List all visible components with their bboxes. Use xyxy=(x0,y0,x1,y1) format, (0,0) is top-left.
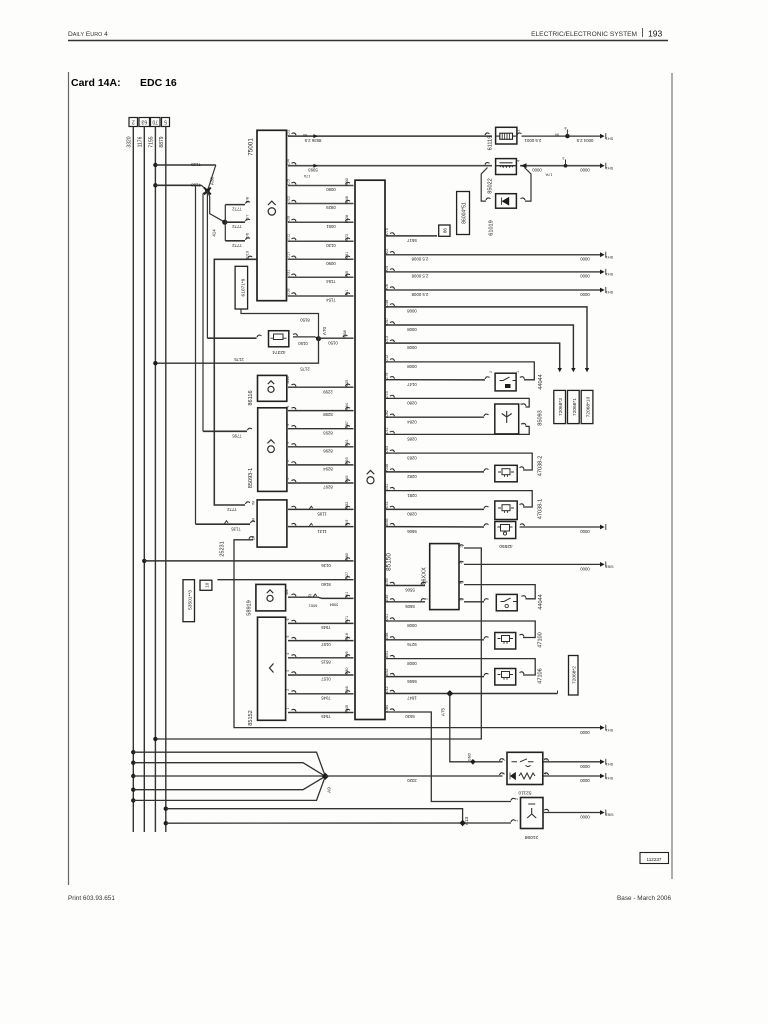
solenoid valve 47100 xyxy=(495,633,516,650)
svg-text:61119: 61119 xyxy=(488,136,494,151)
reference box 72068*1 xyxy=(568,390,580,423)
wire 1847 from ECU pin A/42 through node A75 xyxy=(390,690,395,692)
svg-text:414: 414 xyxy=(212,229,217,237)
wire 0150 from 42374 to node A70 xyxy=(293,334,298,336)
node A36 xyxy=(204,188,211,195)
wire 0281 from ECU pin K/51 to sensor 47038-1 right pin xyxy=(390,487,395,489)
wire 0051 from 75001 pin C/9 to ECU pin K/28 xyxy=(288,221,354,223)
wire 0008 from ECU pin A/41 to valve 47100 right pin xyxy=(390,618,395,620)
wire 0000 from motor 86012 to arrow S/B1 xyxy=(544,812,600,814)
svg-text:47100: 47100 xyxy=(538,632,544,648)
svg-text:A9: A9 xyxy=(327,787,332,793)
wire branch 3 to connector 42374 xyxy=(207,337,256,339)
svg-text:K/6: K/6 xyxy=(385,284,389,290)
wire 8160 from fuse 10 to ECU pin K/27 xyxy=(217,579,353,581)
svg-text:A13: A13 xyxy=(464,816,469,825)
svg-text:5: 5 xyxy=(286,424,290,426)
svg-text:Base - March 2006: Base - March 2006 xyxy=(617,895,671,902)
svg-text:C/19: C/19 xyxy=(246,251,250,259)
svg-text:7133: 7133 xyxy=(191,162,201,167)
node A14 xyxy=(222,220,227,225)
harness arrow SH1 row K/4 xyxy=(600,270,605,275)
svg-text:7772: 7772 xyxy=(227,507,237,512)
wire 5505 from ECU pin A/35 to module 86XXX pin 2 xyxy=(390,599,395,601)
svg-text:A75: A75 xyxy=(441,707,446,716)
svg-text:B/8: B/8 xyxy=(285,589,289,594)
svg-text:70: 70 xyxy=(152,118,158,124)
reference box 53501**3 xyxy=(183,580,195,622)
harness arrow SH1 row 52110 pin 4 xyxy=(600,774,605,779)
svg-text:K/87: K/87 xyxy=(345,421,349,429)
wire from 75001 pin C/2 to fuse 61119 xyxy=(292,133,297,135)
node on bus 7155 upper xyxy=(153,163,157,167)
svg-text:C/11: C/11 xyxy=(287,234,291,242)
svg-text:3: 3 xyxy=(563,156,565,160)
wire 7772 middle to 75001 pin C/7 xyxy=(225,221,245,223)
bus terminal box 63 xyxy=(139,118,150,127)
svg-text:72068*2: 72068*2 xyxy=(572,666,578,684)
svg-text:A/41: A/41 xyxy=(385,614,389,622)
wire 5565 from ECU pin A/52 to valve 47106 left pin xyxy=(390,673,395,675)
svg-text:SH1: SH1 xyxy=(606,762,613,766)
svg-text:EDC 16: EDC 16 xyxy=(140,77,177,89)
svg-text:K/51: K/51 xyxy=(385,483,389,491)
node on bus 7155 lower xyxy=(153,183,157,187)
page header rule xyxy=(68,40,668,42)
svg-text:7772: 7772 xyxy=(232,224,242,229)
svg-text:85093: 85093 xyxy=(538,410,544,426)
svg-text:2.5 0008: 2.5 0008 xyxy=(411,292,428,297)
wire 7772 from 75001 pin C/19 to connector 25231 pin 7M xyxy=(214,259,256,505)
sensor 42550 xyxy=(495,522,516,539)
svg-text:ELECTRIC/ELECTRONIC SYSTEM: ELECTRIC/ELECTRONIC SYSTEM xyxy=(531,31,637,38)
svg-text:72068*3: 72068*3 xyxy=(558,398,564,416)
svg-text:2: 2 xyxy=(286,689,290,691)
svg-text:K/91: K/91 xyxy=(345,252,349,260)
svg-text:10: 10 xyxy=(205,582,210,588)
svg-text:SH1: SH1 xyxy=(606,255,613,259)
reference box 10 xyxy=(200,580,212,590)
wire from module 86XXX pin 3 to switch 44044 lower left pin xyxy=(459,599,464,601)
svg-text:C/4: C/4 xyxy=(287,159,291,165)
svg-text:0280: 0280 xyxy=(407,401,417,406)
wire from bus 8879 to node A13 upper xyxy=(164,807,168,811)
solenoid valve 47106 xyxy=(495,669,516,686)
wire 0283 from ECU pin K/63 to sensor 47038-2 right pin xyxy=(390,450,395,452)
wire 7045 from 85152 pin 2 to ECU pin K/46 xyxy=(292,691,297,693)
wire 7772 bracket at A14 xyxy=(224,205,226,241)
svg-text:K/11: K/11 xyxy=(385,427,389,435)
svg-text:K/45: K/45 xyxy=(345,705,349,713)
svg-text:K/13: K/13 xyxy=(385,336,389,344)
svg-text:A/56: A/56 xyxy=(385,518,389,526)
wire 2175 from node A70 to bus 7155 xyxy=(155,339,318,364)
bus wire 8879 xyxy=(165,127,167,833)
svg-text:0000: 0000 xyxy=(580,292,590,297)
svg-text:2299: 2299 xyxy=(323,389,333,394)
svg-text:4: 4 xyxy=(286,653,290,655)
svg-text:0150: 0150 xyxy=(298,341,308,346)
svg-text:SH1: SH1 xyxy=(606,776,613,780)
svg-text:2175: 2175 xyxy=(300,366,310,371)
svg-text:47038-2: 47038-2 xyxy=(538,456,544,477)
wire 5984 from 58919 to ECU pin K/2 xyxy=(292,594,297,596)
svg-text:85093-1: 85093-1 xyxy=(248,468,254,489)
relay coil 85022 xyxy=(485,163,490,165)
svg-text:8: 8 xyxy=(565,126,567,130)
svg-text:0090: 0090 xyxy=(326,187,336,192)
svg-text:193: 193 xyxy=(648,29,662,39)
svg-text:8515: 8515 xyxy=(321,659,331,664)
svg-text:0150: 0150 xyxy=(328,340,338,345)
svg-text:6: 6 xyxy=(286,406,290,408)
wire 8298 from 85093-1 pin 6 to ECU pin K/64 xyxy=(292,407,297,409)
svg-text:21098: 21098 xyxy=(525,834,539,840)
svg-text:44044: 44044 xyxy=(538,374,544,390)
svg-text:63: 63 xyxy=(141,118,147,124)
switch 44044 upper xyxy=(495,373,516,391)
svg-text:Card 14A:: Card 14A: xyxy=(71,77,121,89)
bus wire 1176 xyxy=(143,127,145,833)
svg-text:7772: 7772 xyxy=(232,207,242,212)
wire from 75001 pin C/4 to relay 85022 xyxy=(292,163,297,165)
svg-text:K/57: K/57 xyxy=(385,318,389,326)
svg-text:8150: 8150 xyxy=(300,317,310,322)
svg-text:5506: 5506 xyxy=(405,588,415,593)
svg-text:0008: 0008 xyxy=(407,345,417,350)
svg-text:0280: 0280 xyxy=(407,512,417,517)
wire 7133 upper to A36 xyxy=(155,164,215,166)
svg-text:5993: 5993 xyxy=(308,168,318,173)
svg-text:K/31: K/31 xyxy=(345,439,349,447)
fuse 61119 xyxy=(485,133,490,135)
svg-text:0000: 0000 xyxy=(580,730,590,735)
svg-text:K/12: K/12 xyxy=(385,355,389,363)
svg-text:1: 1 xyxy=(515,820,519,822)
svg-text:SH1: SH1 xyxy=(606,272,613,276)
wire 5506 from ECU pin A/56 to sensor 42550 xyxy=(390,523,395,525)
svg-text:K/1: K/1 xyxy=(345,290,349,296)
drawing number box 112237 xyxy=(640,853,669,864)
svg-text:K/2: K/2 xyxy=(385,249,389,255)
svg-text:86116: 86116 xyxy=(248,390,254,405)
node A70 xyxy=(316,336,321,341)
svg-text:61071*9: 61071*9 xyxy=(240,278,246,296)
svg-text:7045: 7045 xyxy=(321,695,331,700)
svg-text:K/9: K/9 xyxy=(345,520,349,526)
wire 0008 from ECU pin K/6 to arrow SH1 xyxy=(390,287,395,289)
wire 8294 from 85093-1 pin 2 to ECU pin K/93 xyxy=(292,462,297,464)
wire from node A75 to relay 52110 pin 2 xyxy=(450,694,503,762)
svg-text:K/48: K/48 xyxy=(385,300,389,308)
wire 8150 from box 61071*9 to node A70 xyxy=(241,309,319,339)
svg-text:0000: 0000 xyxy=(580,815,590,820)
svg-text:3: 3 xyxy=(286,442,290,444)
svg-text:0136: 0136 xyxy=(321,563,331,568)
wire 0157 from 85152 pin 3 to ECU pin K/30 xyxy=(292,672,297,674)
harness arrow S/B1 row 86XXX pin 4 xyxy=(600,562,605,567)
svg-text:K/79: K/79 xyxy=(385,373,389,381)
harness arrow S/B1 row 86012 xyxy=(600,810,605,815)
svg-text:8879: 8879 xyxy=(159,136,165,147)
svg-text:K/46: K/46 xyxy=(345,196,349,204)
junction on bus 7155 bottom xyxy=(153,737,157,741)
right page border xyxy=(671,73,673,879)
svg-text:K/80: K/80 xyxy=(345,553,349,561)
svg-text:A/42: A/42 xyxy=(385,686,389,694)
svg-text:53501**3: 53501**3 xyxy=(188,590,194,610)
svg-text:7545: 7545 xyxy=(321,625,331,630)
wire 0280 from ECU pin K/41 to sensor 47038-1 left pin xyxy=(390,506,395,508)
svg-text:A/39: A/39 xyxy=(385,578,389,586)
svg-text:K/9: K/9 xyxy=(345,651,349,657)
reference box 86 xyxy=(439,225,450,236)
svg-text:K/38: K/38 xyxy=(343,330,347,338)
svg-text:C/5: C/5 xyxy=(287,179,291,185)
svg-text:0130: 0130 xyxy=(326,243,336,248)
svg-text:0000: 0000 xyxy=(580,529,590,534)
svg-text:K/64: K/64 xyxy=(345,403,349,411)
wire 3320 from node A9 to relay 52110 pin 3 xyxy=(325,775,502,777)
svg-text:5: 5 xyxy=(425,581,429,583)
wire from relay 85022 to arrow SH1 xyxy=(520,165,600,167)
svg-text:S/B1: S/B1 xyxy=(605,813,613,817)
svg-text:K/63: K/63 xyxy=(385,446,389,454)
wire 0157 from 85152 pin 5 to ECU pin K/18 xyxy=(292,637,297,639)
svg-text:0285: 0285 xyxy=(407,437,417,442)
junction on C/2 wire xyxy=(565,134,569,138)
svg-text:2: 2 xyxy=(517,129,521,131)
svg-text:7545: 7545 xyxy=(321,714,331,719)
connector 85152 xyxy=(258,617,286,720)
wire 5517 from ECU pin K/75 xyxy=(390,233,395,235)
svg-text:3: 3 xyxy=(286,670,290,672)
svg-text:1: 1 xyxy=(516,371,520,373)
svg-text:K/4: K/4 xyxy=(385,266,389,272)
svg-text:A/51: A/51 xyxy=(385,650,389,658)
svg-text:A/35: A/35 xyxy=(385,595,389,603)
svg-text:0008: 0008 xyxy=(407,623,417,628)
svg-text:8297: 8297 xyxy=(323,485,333,490)
svg-text:C/6: C/6 xyxy=(246,233,250,239)
wire 0280 from ECU pin K/15 to glowplug 85093 upper right pin xyxy=(390,395,395,397)
wire 8296 from 85093-1 pin 3 to ECU pin K/31 xyxy=(292,444,297,446)
svg-text:K/72: K/72 xyxy=(345,234,349,242)
svg-text:5505: 5505 xyxy=(405,604,415,609)
wire from bus 8879 through node A13 to motor 86012 pin 1 xyxy=(164,821,168,825)
svg-text:S/B1: S/B1 xyxy=(605,565,613,569)
svg-text:1195: 1195 xyxy=(317,512,327,517)
svg-text:1176: 1176 xyxy=(138,136,144,147)
wire 7133 lower to A36 xyxy=(155,184,201,186)
svg-text:1847: 1847 xyxy=(407,696,417,701)
svg-text:2.5 0008: 2.5 0008 xyxy=(411,257,428,262)
svg-text:A36: A36 xyxy=(210,176,215,185)
svg-text:2: 2 xyxy=(489,371,493,373)
svg-text:K/46: K/46 xyxy=(385,464,389,472)
reference box 72068*2 xyxy=(569,656,579,696)
wire A36 to node A14 xyxy=(207,191,224,222)
svg-text:0000: 0000 xyxy=(580,257,590,262)
svg-text:K/28: K/28 xyxy=(345,215,349,223)
svg-text:C/7: C/7 xyxy=(246,215,250,221)
wire 0147 from ECU pin K/79 to switch 44044 left pin xyxy=(390,377,395,379)
svg-text:A/26: A/26 xyxy=(286,376,290,383)
wire 0008 from ECU pin K/48 to 72068*10 xyxy=(390,304,395,306)
svg-text:7135: 7135 xyxy=(231,526,241,531)
wire 7154 from 75001 pin C/18 to ECU pin K/1 xyxy=(288,295,354,297)
harness arrow row 42550 xyxy=(600,525,605,530)
wire 5530 from ECU pin K/84 to motor 86012 pin 2 xyxy=(390,709,395,711)
svg-text:3320: 3320 xyxy=(407,778,417,783)
wire 0008 from ECU pin K/4 to arrow SH1 xyxy=(390,269,395,271)
svg-text:17A: 17A xyxy=(545,172,552,176)
wire 0130 from 75001 pin C/11 to ECU pin K/72 xyxy=(288,240,354,242)
svg-text:8936 2.5: 8936 2.5 xyxy=(304,138,321,143)
svg-text:K/15: K/15 xyxy=(385,391,389,399)
svg-text:17A: 17A xyxy=(303,174,310,178)
svg-text:7154: 7154 xyxy=(326,298,336,303)
svg-text:4: 4 xyxy=(517,160,521,162)
reference box 72068*3 xyxy=(554,390,566,423)
svg-text:0000: 0000 xyxy=(532,168,542,173)
svg-text:0000: 0000 xyxy=(580,567,590,572)
svg-text:64: 64 xyxy=(555,133,559,137)
wire from module 86XXX pin 1 to bus 7155 xyxy=(459,545,464,547)
svg-text:0008: 0008 xyxy=(407,309,417,314)
resistor 42374 xyxy=(269,331,289,347)
svg-text:K/41: K/41 xyxy=(385,501,389,509)
svg-text:0004 2.5: 0004 2.5 xyxy=(576,138,593,143)
wire 1195 from 25231 to ECU pin K/52 xyxy=(292,506,297,508)
svg-text:K/93: K/93 xyxy=(345,457,349,465)
svg-text:42374: 42374 xyxy=(272,349,286,355)
svg-text:85152: 85152 xyxy=(248,710,254,726)
svg-text:SH1: SH1 xyxy=(606,728,613,732)
svg-text:K/1: K/1 xyxy=(345,592,349,598)
svg-text:3M: 3M xyxy=(252,517,256,522)
wire from A36 down branch 3 xyxy=(206,191,208,338)
svg-text:3: 3 xyxy=(520,403,524,405)
svg-text:0147: 0147 xyxy=(407,382,417,387)
left page border xyxy=(68,72,70,885)
relay 52110 xyxy=(500,759,505,761)
wire 8297 from 85093-1 pin 1 to ECU pin K/45 xyxy=(292,480,297,482)
svg-text:7154: 7154 xyxy=(326,279,336,284)
wire 1131 from 25231 to ECU pin K/9 xyxy=(292,523,297,525)
wire 0000 from relay 52110 pin 1 to arrow SH1 xyxy=(544,761,601,763)
svg-text:9276: 9276 xyxy=(407,642,417,647)
svg-text:0282: 0282 xyxy=(407,474,417,479)
wire branch 1 to connector 25231 pin 3M xyxy=(196,523,251,525)
svg-text:K/18: K/18 xyxy=(345,633,349,641)
svg-text:7795: 7795 xyxy=(232,434,242,439)
svg-text:DAILY EURO 4: DAILY EURO 4 xyxy=(68,31,108,38)
svg-text:C/8: C/8 xyxy=(246,197,250,203)
svg-text:K/27: K/27 xyxy=(345,572,349,580)
svg-text:75001: 75001 xyxy=(247,138,254,156)
harness arrow SH1 row K/6 xyxy=(600,288,605,293)
junction tick on C/4 wire xyxy=(564,164,568,168)
svg-text:42550: 42550 xyxy=(499,543,513,549)
svg-text:7155: 7155 xyxy=(149,136,155,147)
svg-text:K/30: K/30 xyxy=(345,667,349,675)
svg-text:K/71: K/71 xyxy=(345,616,349,624)
bus wire 3320 xyxy=(132,127,134,833)
svg-text:47106: 47106 xyxy=(538,668,544,684)
svg-text:0284: 0284 xyxy=(407,419,417,424)
wire from ECU pin K/12 to switch 44044 right pin xyxy=(390,359,395,361)
svg-text:8160: 8160 xyxy=(321,582,331,587)
svg-text:86004*51: 86004*51 xyxy=(462,202,468,224)
svg-text:0000: 0000 xyxy=(580,274,590,279)
svg-text:SH1: SH1 xyxy=(606,136,613,140)
svg-text:2: 2 xyxy=(286,460,290,462)
svg-text:0090: 0090 xyxy=(326,261,336,266)
svg-text:K/75: K/75 xyxy=(385,228,389,236)
svg-text:0929: 0929 xyxy=(326,205,336,210)
svg-text:6001: 6001 xyxy=(309,604,317,608)
svg-text:2.5 0001: 2.5 0001 xyxy=(524,138,541,143)
wire 0282 from ECU pin K/46 to sensor 47038-2 left pin xyxy=(390,469,395,471)
svg-text:0000: 0000 xyxy=(580,168,590,173)
svg-text:8293: 8293 xyxy=(323,430,333,435)
wire 8293 from 85093-1 pin 5 to ECU pin K/87 xyxy=(292,426,297,428)
svg-text:72068*1: 72068*1 xyxy=(572,398,578,416)
svg-text:0000: 0000 xyxy=(580,778,590,783)
harness arrow SH1 row C/2 xyxy=(600,134,605,139)
wire 0136 from bus 1176 to ECU pin K/80 xyxy=(142,559,146,563)
svg-text:2175: 2175 xyxy=(234,357,244,362)
svg-text:1131: 1131 xyxy=(317,529,327,534)
svg-text:5530: 5530 xyxy=(405,714,415,719)
node A75 xyxy=(446,690,453,697)
connector 58919 xyxy=(256,584,286,611)
module 86XXX xyxy=(430,544,459,610)
svg-text:12: 12 xyxy=(308,593,312,597)
wire from module 86XXX pin 6 to switch 44044 lower right pin xyxy=(459,581,464,583)
glow plug unit 85093 xyxy=(495,404,519,434)
bus terminal box 2 xyxy=(129,118,138,127)
svg-text:1: 1 xyxy=(286,707,290,709)
svg-text:0283: 0283 xyxy=(407,455,417,460)
wire 7772 bottom to 75001 pin C/6 xyxy=(225,240,245,242)
wire from A36 down-left branch 1 xyxy=(195,185,197,524)
svg-text:C/2: C/2 xyxy=(287,130,291,136)
svg-text:0000: 0000 xyxy=(580,764,590,769)
svg-text:7772: 7772 xyxy=(232,243,242,248)
svg-text:K/46: K/46 xyxy=(345,686,349,694)
svg-text:1: 1 xyxy=(460,546,464,548)
svg-text:SH1: SH1 xyxy=(606,290,613,294)
svg-text:0157: 0157 xyxy=(321,677,331,682)
svg-text:5565: 5565 xyxy=(407,679,417,684)
wire 0000 from module 86XXX pin 4 to arrow S/B1 xyxy=(459,561,464,563)
svg-text:2.5 0008: 2.5 0008 xyxy=(411,274,428,279)
harness arrow SH1 row K/2 xyxy=(600,252,605,257)
svg-text:85150: 85150 xyxy=(386,553,393,571)
bus terminal box 70 xyxy=(151,118,161,127)
wire 7795 branch 2 to connector 85093-1 pin 7 xyxy=(203,430,247,432)
svg-text:2: 2 xyxy=(515,798,519,800)
wire from fuse 61119 to arrow SH1 xyxy=(517,133,522,135)
node A9 xyxy=(322,773,329,780)
wire 5506 from ECU pin A/39 to module 86XXX pin 5 xyxy=(390,582,395,584)
wire 0150 from node A70 to ECU pin K/38 xyxy=(319,337,354,339)
svg-text:25231: 25231 xyxy=(220,541,226,557)
svg-text:7M: 7M xyxy=(252,500,256,505)
svg-text:0008: 0008 xyxy=(407,661,417,666)
